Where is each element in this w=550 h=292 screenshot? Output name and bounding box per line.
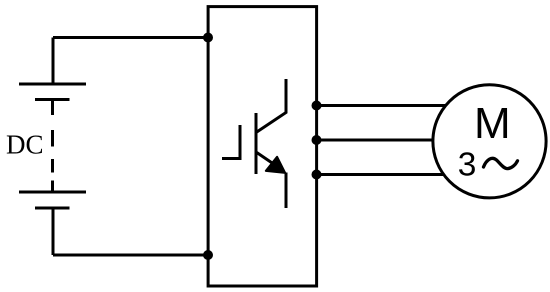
inverter box U1	[208, 7, 317, 286]
svg-text:3: 3	[458, 147, 477, 184]
wire: phase C	[317, 173, 453, 176]
battery BT1 dashed middle link	[51, 100, 54, 116]
motor M1 tilde	[484, 158, 518, 168]
node: phase C junction	[312, 170, 322, 180]
svg-text:M: M	[474, 99, 511, 148]
node: phase A junction	[312, 101, 322, 111]
transistor Q1 gate lead	[222, 125, 240, 159]
transistor Q1 body bar	[255, 113, 258, 174]
wire: battery bottom lead	[52, 208, 55, 255]
battery BT1 cell2 short plate	[35, 207, 70, 210]
transistor Q1 emitter lead	[256, 152, 278, 167]
wire: emitter down lead	[285, 173, 288, 209]
node: phase B junction	[312, 135, 322, 145]
transistor Q1 emitter arrow	[266, 157, 285, 173]
wire: phase B	[317, 139, 441, 142]
wire: battery top lead	[52, 38, 55, 85]
battery BT1 cell2 long plate	[19, 191, 86, 194]
battery BT1 cell1 short plate	[35, 98, 70, 101]
node: DC- junction	[203, 250, 213, 260]
motor M1 body	[433, 85, 546, 198]
wire: DC- bottom rail	[53, 254, 208, 257]
wire: phase A	[317, 104, 453, 107]
transistor Q1 collector lead	[256, 79, 286, 133]
battery BT1 cell1 long plate	[19, 83, 86, 86]
svg-text:DC: DC	[6, 130, 44, 160]
wire: DC+ top rail	[53, 36, 208, 39]
node: DC+ junction	[203, 33, 213, 43]
